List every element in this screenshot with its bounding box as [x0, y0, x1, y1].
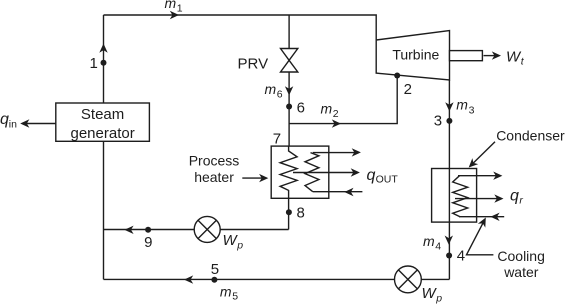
flow arrow into steam riser (up)	[99, 44, 107, 53]
flow arrow m5 (left)	[184, 275, 193, 283]
wire: heater outlet through node 8 to pump line	[288, 198, 290, 229]
leader: process heater label arrow	[242, 177, 266, 179]
arrow heater middle outlet (right)	[351, 168, 360, 176]
flow arrow m3 (down)	[445, 102, 453, 111]
PRV valve V1	[281, 49, 298, 73]
wire: heater process outlet top	[313, 152, 359, 154]
svg-text:9: 9	[144, 234, 152, 251]
wire: shaft output arrow line	[484, 55, 500, 57]
svg-text:6: 6	[297, 100, 305, 117]
svg-text:Steam: Steam	[81, 106, 124, 123]
svg-text:heater: heater	[194, 169, 234, 185]
wire: condenser cooling outlet top	[458, 175, 501, 177]
arrow heater top outlet (right)	[352, 148, 361, 156]
wire: condenser cooling outlet middle (q_r)	[455, 198, 502, 200]
condenser box	[432, 169, 477, 223]
node 2	[394, 73, 400, 79]
svg-text:PRV: PRV	[238, 55, 269, 72]
arrow condenser bottom inlet (left)	[490, 213, 499, 221]
svg-text:m: m	[165, 0, 177, 11]
flow arrow m4 (down)	[445, 236, 453, 245]
svg-text:m: m	[220, 284, 232, 300]
arrow process heater leader (right)	[259, 174, 268, 182]
svg-text:m: m	[423, 233, 435, 249]
svg-text:Process: Process	[189, 152, 240, 168]
svg-text:q: q	[0, 111, 9, 128]
svg-text:2: 2	[404, 81, 412, 98]
svg-text:5: 5	[232, 291, 238, 303]
svg-text:t: t	[521, 56, 525, 68]
svg-text:m: m	[456, 97, 468, 113]
svg-text:p: p	[435, 293, 442, 304]
svg-text:7: 7	[273, 131, 281, 148]
wire: heater process inlet bottom	[313, 191, 363, 193]
svg-text:Cooling: Cooling	[497, 248, 544, 264]
svg-text:q: q	[510, 188, 519, 205]
arrow q_in (left)	[20, 119, 29, 127]
svg-text:1: 1	[90, 55, 98, 72]
flow arrow m2 (right)	[332, 119, 341, 127]
arrow condenser leader (down-left)	[469, 158, 479, 167]
node 4	[446, 253, 452, 259]
svg-text:4: 4	[435, 240, 441, 252]
wire: m2 extraction line from node 2 to heater branch	[289, 76, 397, 124]
leader: condenser label arrow	[470, 142, 495, 166]
steam generator	[56, 103, 150, 141]
svg-text:W: W	[422, 285, 438, 302]
process heater steam coil (left)	[280, 146, 297, 198]
arrow cooling water leader (up-right)	[478, 218, 486, 228]
svg-text:6: 6	[277, 89, 283, 101]
wire: pump line (node 8 leg to left downcomer)	[104, 229, 289, 231]
pump P2 (right, after node 4)	[395, 266, 422, 293]
svg-text:W: W	[223, 232, 239, 249]
svg-text:m: m	[321, 101, 333, 117]
svg-text:q: q	[367, 167, 376, 184]
flow arrow m1 (right)	[170, 11, 179, 19]
turbine	[376, 31, 449, 80]
node 8	[286, 209, 292, 215]
svg-text:4: 4	[457, 248, 465, 265]
svg-text:p: p	[236, 240, 243, 252]
leader: cooling water label line	[467, 219, 494, 255]
svg-text:Condenser: Condenser	[496, 128, 565, 144]
process heater process coil (right)	[305, 153, 319, 192]
wire: top main line (steam generator to turbine inlet)	[104, 15, 377, 40]
svg-text:W: W	[506, 49, 522, 66]
arrow shaft W_t (right)	[492, 51, 501, 59]
wire: bottom return line (node 4 leg to left downcomer)	[104, 278, 450, 280]
arrow condenser top outlet (right)	[493, 172, 502, 180]
svg-text:OUT: OUT	[376, 174, 399, 186]
svg-text:8: 8	[297, 205, 305, 222]
condenser coil	[453, 176, 468, 217]
svg-text:5: 5	[211, 261, 219, 278]
wire: PRV branch from top line	[288, 15, 290, 49]
flow arrow m6 (down)	[285, 86, 293, 95]
svg-text:r: r	[519, 195, 523, 207]
svg-text:1: 1	[177, 2, 183, 14]
pump P1 (left, after node 8)	[194, 216, 220, 242]
wire: left downcomer (steam generator bottom to bottom line)	[103, 141, 105, 279]
leader: q_in arrow from steam generator	[22, 123, 56, 125]
node 1	[101, 60, 107, 66]
svg-text:water: water	[503, 264, 539, 280]
svg-text:generator: generator	[70, 125, 134, 142]
svg-text:3: 3	[434, 112, 442, 129]
arrow heater bottom inlet (left)	[344, 188, 353, 196]
wire: heater process outlet middle (q_OUT)	[293, 172, 358, 174]
process heater box	[271, 146, 329, 198]
flow arrow node 9 line (left)	[124, 226, 133, 234]
node 6	[286, 104, 292, 110]
turbine shaft	[450, 51, 483, 61]
wire: right vertical (turbine exit through condenser to bottom line)	[448, 80, 450, 279]
svg-text:in: in	[9, 118, 17, 130]
node 3	[446, 118, 452, 124]
node 5	[211, 277, 217, 283]
wire: PRV valve to process heater	[288, 72, 290, 146]
svg-text:m: m	[265, 81, 277, 97]
svg-text:3: 3	[469, 104, 475, 116]
wire: condenser cooling inlet bottom	[459, 216, 504, 218]
svg-text:2: 2	[333, 108, 339, 120]
svg-text:Turbine: Turbine	[392, 47, 439, 63]
wire: left riser (steam generator top to main line)	[103, 15, 105, 103]
node 9	[145, 227, 151, 233]
arrow condenser middle outlet (right)	[494, 194, 503, 202]
